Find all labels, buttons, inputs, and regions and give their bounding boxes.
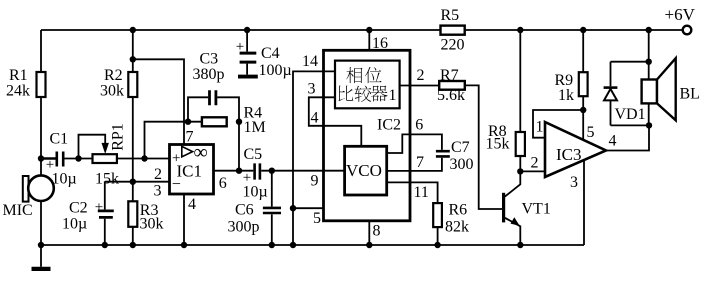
svg-text:15k: 15k: [486, 136, 510, 153]
svg-text:2: 2: [154, 166, 162, 183]
svg-text:VT1: VT1: [522, 201, 551, 218]
svg-text:30k: 30k: [140, 216, 164, 233]
svg-text:30k: 30k: [100, 83, 124, 100]
svg-text:C1: C1: [50, 131, 69, 148]
svg-text:5.6k: 5.6k: [437, 87, 465, 104]
svg-text:2: 2: [417, 67, 425, 84]
resistor R1: [6, 30, 46, 176]
svg-text:300p: 300p: [228, 219, 260, 236]
svg-text:+6V: +6V: [665, 5, 696, 24]
svg-text:10µ: 10µ: [62, 216, 87, 233]
speaker BL: [642, 58, 700, 120]
capacitor C2: [62, 182, 114, 249]
block phase comparator 1: [335, 61, 400, 109]
svg-text:3: 3: [154, 183, 162, 200]
svg-text:VCO: VCO: [346, 161, 382, 180]
svg-text:R5: R5: [441, 7, 460, 24]
svg-text:10µ: 10µ: [52, 171, 77, 188]
svg-text:1: 1: [536, 119, 544, 136]
svg-text:3: 3: [570, 174, 578, 191]
diode VD1: [604, 62, 649, 126]
svg-text:7: 7: [186, 129, 194, 146]
resistor R9: [555, 27, 588, 113]
svg-text:9: 9: [311, 173, 319, 190]
svg-text:IC2: IC2: [377, 117, 401, 134]
ground: [32, 245, 51, 269]
svg-text:1: 1: [389, 87, 397, 104]
wire IC1 pin3 input: [105, 179, 170, 200]
svg-text:220: 220: [441, 37, 465, 54]
svg-text:4: 4: [609, 133, 617, 150]
svg-text:14: 14: [302, 53, 318, 70]
op-amp IC3: [545, 122, 606, 177]
svg-text:380p: 380p: [193, 66, 225, 83]
capacitor C3: [141, 51, 239, 171]
terminal +6V: [665, 5, 696, 34]
resistor R3: [128, 182, 163, 249]
wire speaker branch: [611, 27, 652, 126]
wire IC2 pins3-4 link: [308, 81, 362, 147]
resistor R4: [202, 105, 266, 174]
svg-text:11: 11: [414, 184, 429, 201]
svg-text:RP1: RP1: [110, 123, 127, 151]
svg-text:1k: 1k: [558, 87, 574, 104]
wire IC2 pin16 supply: [366, 27, 388, 52]
svg-text:24k: 24k: [6, 83, 30, 100]
svg-text:C4: C4: [261, 45, 280, 62]
wire IC3 pin4 output: [606, 122, 652, 150]
svg-text:R2: R2: [104, 67, 123, 84]
svg-text:82k: 82k: [445, 219, 469, 236]
microphone MIC: [3, 175, 54, 245]
svg-text:∞: ∞: [194, 142, 208, 164]
node MIC/R1/C1 junction: [38, 155, 44, 248]
wire IC2 pin14: [290, 53, 335, 248]
svg-text:C3: C3: [200, 51, 219, 68]
wire IC1 pin7 supply: [130, 56, 194, 145]
svg-text:100µ: 100µ: [259, 62, 292, 79]
wire IC1 pin6 output: [214, 171, 254, 192]
capacitor C6: [228, 171, 282, 249]
svg-text:2: 2: [531, 155, 539, 172]
svg-text:7: 7: [416, 154, 424, 171]
node C4 supply: [244, 27, 250, 33]
svg-text:IC1: IC1: [177, 162, 203, 181]
resistor R5: [441, 7, 465, 54]
svg-text:8: 8: [373, 223, 381, 240]
svg-text:5: 5: [587, 124, 595, 141]
svg-text:4: 4: [188, 196, 196, 213]
svg-text:+: +: [95, 200, 103, 216]
wire bottom ground rail: [41, 244, 584, 246]
svg-text:R7: R7: [440, 67, 459, 84]
svg-text:BL: BL: [680, 86, 700, 103]
transistor VT1: [504, 171, 551, 248]
svg-text:16: 16: [372, 35, 388, 52]
op-amp IC1: [170, 142, 214, 195]
svg-text:5: 5: [313, 210, 321, 227]
wire IC2 pin2 output: [400, 67, 440, 86]
svg-text:VD1: VD1: [615, 106, 646, 123]
svg-text:C6: C6: [235, 202, 254, 219]
wire IC3 pin5: [583, 110, 594, 141]
svg-text:1M: 1M: [244, 119, 266, 136]
svg-text:R6: R6: [449, 201, 468, 218]
wire IC3 pin1: [533, 110, 583, 138]
potentiometer RP1: [75, 123, 169, 187]
capacitor C7 timing: [387, 117, 474, 174]
svg-text:MIC: MIC: [3, 202, 33, 219]
svg-text:15k: 15k: [95, 171, 119, 188]
capacitor C4: [236, 30, 292, 79]
capacitor C1: [41, 131, 93, 188]
resistor R6: [387, 182, 469, 248]
svg-text:C2: C2: [69, 199, 88, 216]
block VCO: [345, 146, 387, 195]
wire IC3 pin2 input: [520, 155, 545, 172]
resistor R7: [437, 67, 504, 209]
wire +6V top rail: [41, 29, 683, 31]
svg-text:300: 300: [450, 156, 474, 173]
node IC2 pin9: [311, 173, 319, 190]
svg-text:C7: C7: [451, 139, 470, 156]
svg-text:+: +: [236, 39, 244, 55]
resistor R2: [100, 27, 137, 182]
svg-text:6: 6: [219, 175, 227, 192]
resistor R8: [486, 27, 525, 175]
capacitor C5: [243, 146, 345, 201]
svg-text:3: 3: [308, 81, 316, 98]
node pin2: [154, 166, 162, 183]
svg-text:C5: C5: [244, 146, 263, 163]
svg-text:IC3: IC3: [556, 145, 582, 164]
wire IC2 pin8 ground: [366, 221, 380, 248]
wire IC2 pin5 inhibit: [290, 205, 324, 227]
svg-text:4: 4: [311, 110, 319, 127]
svg-text:R1: R1: [9, 67, 28, 84]
wire IC1 pin4 ground: [181, 194, 196, 248]
svg-text:10µ: 10µ: [243, 184, 268, 201]
svg-text:6: 6: [415, 117, 423, 134]
IC block IC2 outline: [324, 50, 411, 221]
wire IC3 pin3 ground: [570, 160, 584, 245]
